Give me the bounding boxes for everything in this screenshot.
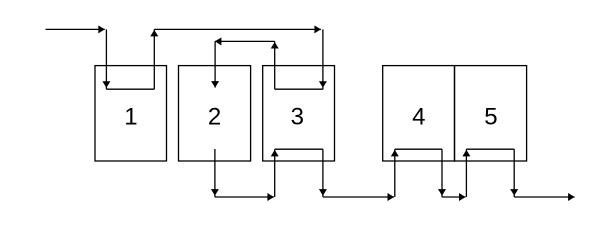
box 3 [263, 66, 335, 161]
arrowhead down into box 1 [102, 81, 110, 88]
wire down out of box 5 [513, 149, 515, 197]
box 1 [95, 66, 167, 161]
wire from box 3 back to box 2 [215, 40, 275, 42]
wire down out of box 4 [441, 149, 443, 197]
arrowhead up into box 3 shelf [271, 150, 279, 157]
arrowhead right bottom toward box 4 [388, 193, 395, 201]
arrowhead up into box 5 shelf [462, 150, 470, 157]
arrowhead right bottom toward box 3 [267, 193, 274, 201]
wire bottom from box 2 to box 3 [215, 196, 274, 198]
wire down into box 1 [105, 29, 107, 89]
svg-text:2: 2 [208, 103, 221, 130]
arrowhead outflow right [568, 193, 575, 201]
arrowhead right into down-leg to box 3 [314, 25, 321, 33]
arrowhead down below box 2 [211, 189, 219, 196]
arrowhead down into box 3 [319, 81, 327, 88]
wire tray inside box 3 [275, 88, 323, 90]
wire outflow bottom right [514, 196, 574, 198]
wire tray inside box 1 [106, 88, 154, 90]
arrowhead down below box 3 [319, 189, 327, 196]
svg-text:5: 5 [484, 103, 497, 130]
wire up into box 4 shelf [394, 149, 396, 197]
svg-text:1: 1 [124, 103, 137, 130]
arrowhead down into box 2 [211, 81, 219, 88]
box 2 [179, 66, 251, 161]
wire bottom from box 3 to box 4 [323, 196, 394, 198]
wire up out of box 1 [153, 29, 155, 89]
arrowhead up out of box 1 [150, 30, 158, 37]
wire feed-in top left [46, 28, 105, 30]
wire down out of box 2 [214, 149, 216, 197]
svg-text:3: 3 [291, 103, 304, 130]
arrowhead left toward box 2 [215, 37, 222, 45]
wire bottom from box 4 to box 5 [442, 196, 466, 198]
wire up out of box 3 [274, 41, 276, 89]
arrowhead up into box 4 shelf [391, 150, 399, 157]
wire down out of box 3 [322, 149, 324, 197]
arrowhead down below box 4 [438, 189, 446, 196]
wire down into box 2 [214, 41, 216, 87]
box 5 [455, 66, 527, 161]
wire up into box 3 shelf [274, 149, 276, 197]
arrowhead up out of box 3 [271, 42, 279, 49]
wire top from box 1 to box 3 [154, 28, 321, 30]
box 4 [383, 66, 455, 161]
wire shelf inside box 3 [275, 148, 323, 150]
svg-text:4: 4 [412, 103, 425, 130]
wire shelf inside box 5 [466, 148, 514, 150]
arrowhead down below box 5 [510, 189, 518, 196]
arrowhead feed-in right [98, 25, 105, 33]
wire up into box 5 shelf [465, 149, 467, 197]
wire shelf inside box 4 [395, 148, 442, 150]
wire down into box 3 [322, 29, 324, 89]
arrowhead right bottom toward box 5 [459, 193, 466, 201]
